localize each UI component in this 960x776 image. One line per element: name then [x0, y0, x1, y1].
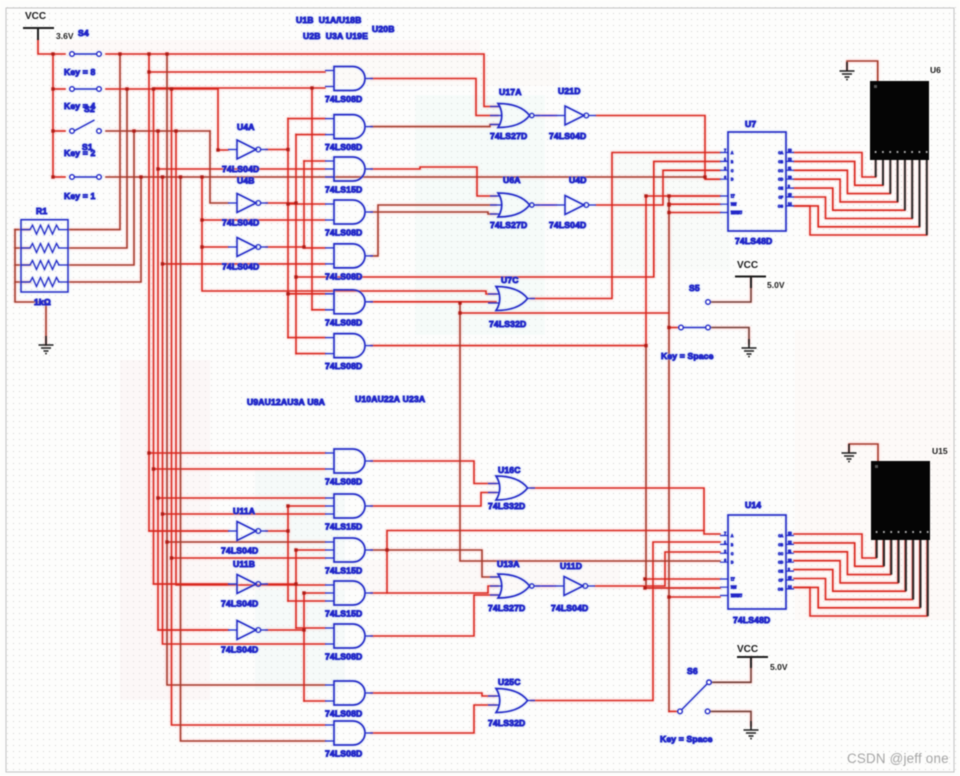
wire U11D out to U14.C	[595, 552, 720, 586]
AND gate U19E (74LS08D)	[325, 244, 373, 268]
AND gate U20B (74LS08D)	[325, 334, 373, 358]
wire S6 top to VCC3	[712, 657, 752, 682]
decoder U14 (74LS48D)	[720, 515, 794, 609]
wire gnd to U15 top	[849, 444, 878, 463]
wire x669 to U7 RBI	[669, 203, 720, 205]
switch S1 (Key = 2)	[70, 120, 102, 133]
wire U4A out	[266, 149, 288, 151]
wire R1 left lead 1	[15, 229, 30, 231]
wire knot x304 G3	[304, 160, 325, 162]
ground at S5	[742, 339, 757, 357]
node x646 lt	[644, 194, 647, 197]
node g4b	[200, 218, 203, 221]
wire U13A to U11D	[536, 585, 555, 587]
wire trunk x167	[167, 54, 325, 685]
node t153 L1	[152, 467, 155, 470]
NOR gate U13A (74LS27D)	[490, 574, 540, 598]
seven-segment display U15	[871, 461, 930, 616]
wire L3L4 to U14.A	[387, 531, 704, 594]
svg-text:74LS08D: 74LS08D	[325, 749, 362, 759]
node t162 top	[161, 175, 164, 178]
wire R1b riser	[68, 89, 127, 248]
svg-text:U25C: U25C	[498, 677, 521, 687]
wire S5 left lead	[669, 327, 678, 329]
wire R1 left lead 2	[15, 247, 30, 249]
seven-segment display U6	[870, 81, 929, 235]
node row3-R1c	[132, 129, 135, 132]
wire x669 to U7 BI	[669, 212, 720, 214]
svg-text:1: 1	[724, 158, 726, 162]
svg-text:74LS04D: 74LS04D	[551, 603, 588, 613]
svg-text:U21D: U21D	[558, 86, 581, 96]
wire trunk x167 branch L3	[167, 541, 325, 543]
svg-text:9: 9	[788, 184, 790, 188]
svg-text:11: 11	[788, 550, 792, 554]
svg-text:U2B U3A U19E: U2B U3A U19E	[303, 31, 368, 41]
svg-text:OB: OB	[778, 160, 783, 164]
svg-text:7: 7	[724, 532, 726, 536]
svg-text:B: B	[731, 160, 733, 164]
svg-text:Key = 8: Key = 8	[64, 67, 95, 77]
decoder U7 (74LS48D)	[720, 132, 794, 231]
node t162 L2	[161, 512, 164, 515]
node x460 s5	[458, 311, 461, 314]
svg-text:74LS08D: 74LS08D	[325, 709, 362, 719]
AND gate U22A (74LS08D)	[325, 681, 373, 705]
wire trunk x171 branch L3	[172, 557, 326, 559]
svg-text:1: 1	[724, 541, 726, 545]
node u4b out	[294, 201, 297, 204]
switch S5 (Key = Space)	[679, 300, 711, 330]
inverter U4D (74LS04D)	[556, 196, 596, 215]
svg-text:U11D: U11D	[560, 561, 582, 571]
wire G4 out	[371, 212, 496, 214]
wire lknot x288 L2	[288, 505, 325, 507]
svg-text:U14: U14	[745, 500, 761, 510]
svg-text:6: 6	[724, 558, 726, 562]
svg-text:R1: R1	[36, 206, 47, 216]
wire R1 left lead 4	[15, 281, 30, 283]
wire L1 out	[371, 461, 496, 484]
svg-text:U9AU12AU3A U8A: U9AU12AU3A U8A	[247, 397, 325, 407]
svg-text:15: 15	[788, 193, 792, 197]
OR gate U16C (74LS32D)	[488, 476, 535, 500]
svg-text:VCC: VCC	[737, 644, 758, 655]
wire row4 run	[106, 176, 705, 178]
svg-text:S5: S5	[689, 283, 700, 293]
wire trunk x158 branch G3	[158, 168, 325, 170]
svg-text:U4D: U4D	[569, 175, 587, 185]
wire L5 out	[371, 595, 498, 636]
svg-text:U4A: U4A	[237, 122, 255, 132]
wire U14-U15 seg1	[794, 534, 876, 558]
svg-text:Key = 2: Key = 2	[64, 148, 95, 158]
wire x645 to U14 RBI	[645, 587, 720, 589]
wire U25C out to U14.B	[531, 542, 720, 701]
wire row4 to U7C in1	[202, 177, 496, 294]
inverter U4A (74LS04D)	[228, 140, 268, 159]
node t162 G5	[161, 262, 164, 265]
wire lknot x288	[287, 506, 289, 601]
wire row2 run	[106, 88, 218, 90]
svg-text:OF: OF	[779, 196, 783, 200]
svg-text:12: 12	[788, 541, 792, 545]
AND gate U3A (74LS08D)	[325, 200, 373, 224]
wire U21D out to U7.D	[596, 116, 720, 180]
wire U14-U15 seg2	[794, 540, 883, 566]
node x645 rbi2	[643, 586, 646, 589]
wire S5 feed	[460, 312, 669, 314]
wire U14-U15 seg4	[794, 540, 898, 583]
svg-text:Key = Space: Key = Space	[661, 351, 714, 361]
svg-text:BI/RBO: BI/RBO	[731, 594, 742, 598]
wire branch U4C in	[202, 246, 228, 248]
svg-text:74LS08D: 74LS08D	[325, 94, 362, 104]
wire knot x288 G4	[288, 203, 325, 205]
wire U7-U6 seg5	[794, 160, 905, 210]
wire lknot x288 L4	[288, 600, 325, 602]
svg-text:74LS15D: 74LS15D	[325, 566, 362, 576]
wire lknot x304 L6	[304, 700, 325, 702]
node u11a out	[286, 529, 289, 532]
wire lknot x296	[295, 550, 297, 628]
svg-text:3.6V: 3.6V	[56, 31, 74, 41]
svg-text:74LS32D: 74LS32D	[489, 319, 526, 329]
node u4c in	[200, 245, 203, 248]
wire trunk x162 branch G5	[163, 263, 326, 265]
svg-text:74LS48D: 74LS48D	[735, 236, 772, 246]
node x669 s6row	[667, 595, 670, 598]
wire U11A out	[266, 530, 288, 532]
svg-text:74LS08D: 74LS08D	[325, 142, 362, 152]
wire lknot x296 L3	[296, 549, 325, 551]
AND gate U3B (74LS15D)	[325, 538, 373, 562]
NOR gate U6A (74LS27D)	[490, 193, 540, 217]
svg-text:CSDN @jeff one: CSDN @jeff one	[847, 751, 949, 766]
node bus row3	[51, 129, 54, 132]
node t167 top	[165, 52, 168, 55]
wire lknot x296 L5	[296, 627, 325, 629]
AND gate U9A (74LS08D)	[325, 449, 373, 473]
wire knot x288 G2	[288, 118, 325, 120]
node t171 top	[170, 87, 173, 90]
ground at S6	[744, 721, 759, 739]
svg-text:7: 7	[724, 149, 726, 153]
NOR gate U17A (74LS27D)	[490, 104, 540, 128]
wire U14-U15 seg6	[794, 540, 913, 600]
svg-text:U17A: U17A	[499, 87, 522, 97]
switch S2 (Key = 4)	[70, 87, 102, 92]
ground at U6	[840, 62, 855, 80]
wire trunk x153 branch L1	[154, 468, 326, 470]
svg-text:S4: S4	[78, 28, 89, 38]
wire trunk x176	[176, 131, 325, 585]
node row1-R1a	[118, 52, 121, 55]
svg-text:OF: OF	[779, 579, 783, 583]
svg-text:S6: S6	[687, 666, 698, 676]
svg-text:74LS04D: 74LS04D	[222, 262, 259, 272]
svg-text:B: B	[731, 543, 733, 547]
node t149 top	[147, 52, 150, 55]
svg-text:74LS27D: 74LS27D	[488, 603, 525, 613]
wire x645 to U14 LT	[645, 578, 720, 580]
wire x669 vertical	[668, 196, 670, 711]
inverter U11B (74LS04D)	[228, 575, 268, 594]
svg-text:74LS04D: 74LS04D	[549, 220, 586, 230]
node t176 top	[174, 129, 177, 132]
AND gate U2B (74LS08D)	[325, 115, 373, 139]
svg-text:74LS04D: 74LS04D	[221, 599, 258, 609]
OR gate U7C (74LS32D)	[488, 287, 535, 311]
node k288 g4	[286, 202, 289, 205]
node bus row2	[51, 87, 54, 90]
wire U7-U6 seg6	[794, 160, 912, 219]
svg-text:Key = 4: Key = 4	[64, 101, 95, 111]
svg-text:OC: OC	[778, 169, 783, 173]
switch S3 (Key = 1)	[70, 175, 102, 180]
node row4-R1d	[139, 175, 142, 178]
wire lknot x304	[303, 593, 305, 701]
wire knot x296 to U7.B	[296, 161, 720, 277]
wire trunk x162	[163, 177, 326, 644]
svg-text:74LS48D: 74LS48D	[733, 615, 770, 625]
wire S6 bottom to gnd	[710, 711, 751, 726]
wire knot x288 G7	[288, 337, 325, 339]
svg-text:RBI: RBI	[731, 203, 736, 207]
node lk296	[294, 548, 297, 551]
svg-text:OE: OE	[778, 187, 783, 191]
resistor pack R1 (1k)	[21, 220, 68, 292]
wire bus to S3	[53, 176, 65, 178]
svg-text:74LS15D: 74LS15D	[325, 185, 362, 195]
node t149 G1	[147, 70, 150, 73]
wire knot x296 G2b	[296, 134, 325, 136]
svg-text:74LS08D: 74LS08D	[325, 361, 362, 371]
wire U14-U15 seg3	[794, 540, 891, 575]
node u4a out	[286, 148, 289, 151]
svg-text:Key = Space: Key = Space	[660, 734, 713, 744]
inverter U21D (74LS04D)	[556, 106, 596, 125]
wire x669 to U7 LT	[669, 195, 720, 197]
wire U14-U15 seg5	[794, 540, 905, 591]
node t149 L1	[147, 451, 150, 454]
svg-text:74LS32D: 74LS32D	[488, 718, 525, 728]
svg-text:12: 12	[788, 158, 792, 162]
node row2-R1b	[125, 87, 128, 90]
node t153 top	[152, 87, 155, 90]
svg-text:74LS08D: 74LS08D	[325, 652, 362, 662]
wire knot x312 G6	[312, 309, 325, 311]
AND gate U1A (74LS15D)	[325, 157, 373, 181]
svg-text:74LS15D: 74LS15D	[325, 609, 362, 619]
node k296 u7c	[294, 275, 297, 278]
wire L2 out	[371, 493, 496, 507]
svg-text:RBI: RBI	[731, 586, 736, 590]
wire knot x304	[303, 161, 305, 248]
svg-text:13: 13	[788, 532, 792, 536]
ground at U15	[842, 444, 857, 462]
svg-text:BI/RBO: BI/RBO	[731, 211, 742, 215]
wire G5 out	[371, 205, 496, 256]
wire x460 to U14.D	[460, 303, 720, 561]
svg-text:74LS04D: 74LS04D	[222, 164, 259, 174]
node bus row1	[51, 52, 54, 55]
svg-text:Key = 1: Key = 1	[64, 191, 95, 201]
switch S4 (Key = 8)	[70, 52, 102, 57]
svg-text:2: 2	[724, 167, 726, 171]
wire trunk x158	[158, 131, 228, 630]
wire U4B out	[266, 202, 296, 204]
node row4 u4c	[200, 175, 203, 178]
wire row2 to U4A	[218, 89, 228, 150]
svg-text:OD: OD	[778, 561, 783, 565]
svg-text:74LS08D: 74LS08D	[325, 271, 362, 281]
svg-text:OG: OG	[778, 587, 783, 591]
svg-text:10: 10	[788, 558, 792, 562]
wire x669 to U14 BI	[669, 596, 720, 598]
svg-text:VCC: VCC	[737, 260, 758, 271]
wire knot G4b	[202, 219, 325, 221]
wire U11B out	[266, 583, 296, 585]
wire U7-U6 seg8	[794, 160, 927, 235]
svg-text:LT: LT	[731, 195, 735, 199]
AND gate U23A (74LS08D)	[325, 721, 373, 745]
wire row1 run	[106, 54, 499, 107]
wire row3 to U4B	[210, 131, 228, 203]
svg-text:U15: U15	[932, 446, 948, 456]
wire trunk x180	[181, 177, 326, 741]
svg-text:14: 14	[788, 202, 792, 206]
svg-text:OC: OC	[778, 552, 783, 556]
AND gate U12A (74LS15D)	[325, 494, 373, 518]
inverter U11C (74LS04D)	[228, 621, 268, 640]
wire U4D out to U7.C	[596, 170, 720, 205]
svg-text:U6: U6	[930, 65, 941, 75]
AND gate U10A (74LS08D)	[325, 624, 373, 648]
wire knot x288	[287, 119, 289, 338]
wire trunk x162 branch L2	[163, 513, 326, 515]
svg-text:74LS04D: 74LS04D	[549, 131, 586, 141]
wire U11A in	[149, 530, 228, 532]
wire L4 out	[371, 586, 498, 593]
svg-text:74LS04D: 74LS04D	[222, 218, 259, 228]
wire x646 lower	[646, 346, 720, 588]
svg-text:OG: OG	[778, 204, 783, 208]
wire R1 common to ground	[15, 230, 46, 345]
svg-text:U20B: U20B	[372, 24, 395, 34]
svg-text:74LS04D: 74LS04D	[221, 546, 258, 556]
wire U7-U6 seg2	[794, 160, 883, 185]
node lk288	[286, 504, 289, 507]
svg-text:74LS27D: 74LS27D	[490, 131, 527, 141]
svg-text:OD: OD	[778, 178, 783, 182]
svg-text:2: 2	[724, 550, 726, 554]
svg-text:U10AU22A U23A: U10AU22A U23A	[355, 394, 425, 404]
svg-text:LT: LT	[731, 578, 735, 582]
node t180 top	[179, 175, 182, 178]
wire row3 run	[106, 130, 210, 132]
wire x669 to S6	[669, 710, 677, 712]
svg-text:74LS27D: 74LS27D	[490, 220, 527, 230]
wire knot x304 G5	[304, 247, 325, 249]
wire U7-U6 seg4	[794, 160, 898, 202]
wire G1 out	[371, 79, 498, 116]
wire knot x288 G6	[288, 293, 325, 295]
wire R1 left lead 3	[15, 264, 30, 266]
wire knot x296	[295, 135, 297, 354]
inverter U11A (74LS04D)	[228, 522, 268, 541]
AND gate U8A (74LS15D)	[325, 581, 373, 605]
svg-text:U13A: U13A	[497, 559, 520, 569]
svg-text:10: 10	[788, 175, 792, 179]
node t158 top	[156, 129, 159, 132]
wire L6 out	[371, 693, 496, 696]
wire U4C out	[266, 246, 304, 248]
svg-text:U1B U1A/U18B: U1B U1A/U18B	[296, 15, 361, 25]
wire U6A to U4D	[536, 204, 556, 206]
wire G7 out	[371, 345, 646, 347]
svg-text:OB: OB	[778, 543, 783, 547]
wire R1a riser	[68, 54, 120, 230]
svg-text:U11B: U11B	[233, 559, 255, 569]
svg-text:14: 14	[788, 585, 792, 589]
wire bus to S2	[53, 88, 65, 90]
node x669 rbi	[667, 203, 670, 206]
wire trunk x153	[154, 89, 229, 584]
wire U11C in	[158, 629, 228, 631]
AND gate U1B (74LS08D)	[325, 67, 373, 91]
wire trunk x149 branch L1	[149, 452, 325, 454]
wire U17A to U21D	[536, 115, 556, 117]
svg-text:U7: U7	[745, 119, 756, 129]
node k312 top	[310, 86, 313, 89]
wire trunk x158 branch L2	[158, 497, 325, 499]
svg-text:U16C: U16C	[498, 465, 521, 475]
inverter U4B (74LS04D)	[228, 194, 268, 213]
wire U7-U6 seg7	[794, 160, 920, 227]
switch S6 (Key = Space)	[678, 680, 712, 714]
wire U11C out	[266, 629, 304, 631]
svg-text:9: 9	[788, 567, 790, 571]
svg-text:74LS32D: 74LS32D	[488, 501, 525, 511]
node k288 g6	[286, 292, 289, 295]
node t158 G3	[156, 167, 159, 170]
svg-text:74LS08D: 74LS08D	[325, 477, 362, 487]
node t171 L3	[170, 556, 173, 559]
svg-text:OE: OE	[778, 570, 783, 574]
wire U7-U6 seg1	[794, 153, 876, 178]
wire x646 to U7 LT	[646, 195, 720, 197]
wire VCC to switch bus	[38, 40, 65, 54]
node x646 g7	[644, 344, 647, 347]
node u4c out	[302, 245, 305, 248]
svg-text:74LS04D: 74LS04D	[221, 645, 258, 655]
svg-text:6: 6	[724, 175, 726, 179]
wire R1d riser	[68, 177, 141, 282]
svg-text:74LS08D: 74LS08D	[325, 317, 362, 327]
node t158 L2	[156, 496, 159, 499]
node u11b out	[294, 582, 297, 585]
tint patches (jpeg-like colour noise)	[60, 40, 955, 700]
wire x646 down	[645, 196, 647, 346]
ground below R1	[39, 336, 54, 354]
svg-text:11: 11	[788, 167, 792, 171]
svg-text:VCC: VCC	[25, 11, 46, 22]
wire switch bus vertical	[52, 54, 54, 177]
node x387 L3	[385, 548, 388, 551]
wire L3 out	[371, 550, 498, 577]
wire knot x296 G7b	[296, 353, 325, 355]
